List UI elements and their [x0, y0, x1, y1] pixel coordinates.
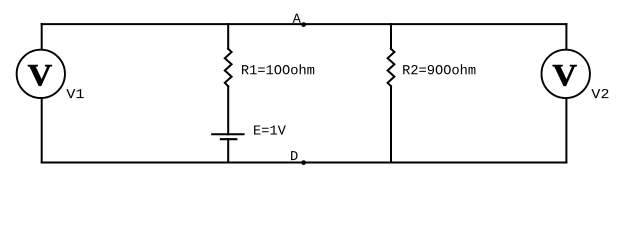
label A: [293, 14, 301, 23]
battery E short plate: [221, 138, 236, 140]
label R2=900ohm: [403, 64, 475, 74]
voltmeter V2 V glyph: [553, 65, 577, 86]
battery E long plate: [212, 133, 243, 135]
label V1: [66, 89, 83, 98]
node D junction dot: [301, 160, 306, 165]
wire R1 branch top: [227, 24, 229, 49]
label V2: [591, 89, 608, 98]
wire top rail: [42, 23, 567, 25]
label D: [291, 151, 297, 160]
wire R2 branch top: [390, 24, 392, 49]
resistor R1: [225, 49, 232, 86]
resistor R2: [388, 49, 395, 86]
wire bottom rail: [42, 162, 567, 164]
wire R1 to battery: [227, 86, 229, 134]
voltmeter V1 circle: [17, 50, 65, 98]
node A junction dot: [301, 22, 306, 27]
label R1=100ohm: [242, 64, 314, 74]
wire battery to bottom rail: [227, 139, 229, 162]
label E=1V: [254, 125, 286, 134]
voltmeter V2 circle: [542, 50, 590, 98]
wire left vertical above V1: [41, 24, 43, 50]
wire left vertical below V1: [41, 98, 43, 163]
wire R2 to bottom rail: [390, 86, 392, 162]
wire right vertical above V2: [565, 24, 567, 50]
wire right vertical below V2: [565, 98, 567, 163]
voltmeter V1 V glyph: [28, 65, 52, 86]
